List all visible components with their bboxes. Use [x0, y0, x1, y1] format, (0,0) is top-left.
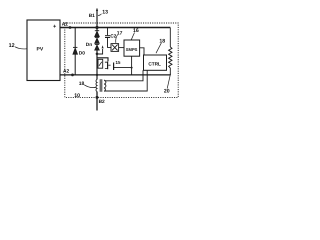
svg-text:A2: A2 [63, 68, 69, 74]
leader 18 [156, 43, 161, 53]
wire lower bus [60, 74, 171, 76]
node A2 dot [71, 74, 74, 77]
CTRL box 18 [144, 55, 167, 70]
transformer core [100, 79, 102, 92]
node bus-transformer dot [96, 74, 98, 76]
PV panel box 12 [27, 20, 60, 81]
leader 14 [84, 85, 96, 88]
arrowhead up [102, 45, 104, 48]
svg-text:10: 10 [74, 93, 80, 99]
wire B2 line [96, 92, 98, 111]
capacitor C2 [105, 28, 111, 48]
svg-text:17: 17 [117, 31, 123, 37]
diode D0 [73, 47, 77, 54]
leader 20 [167, 74, 170, 89]
svg-text:CTRL: CTRL [148, 61, 161, 66]
wire B1 output line 13 [96, 9, 98, 31]
transformer secondary coil [104, 80, 106, 91]
svg-text:18: 18 [79, 81, 85, 87]
wire D0 branch [74, 28, 76, 75]
svg-text:B2: B2 [99, 99, 105, 105]
switch 15 mark inside [99, 62, 102, 66]
svg-text:C2: C2 [110, 34, 116, 39]
leader 13 [98, 14, 102, 16]
node B2 dot [96, 96, 99, 99]
svg-text:13: 13 [102, 9, 108, 15]
svg-text:A1: A1 [62, 21, 68, 27]
svg-text:20: 20 [164, 89, 170, 95]
resistor 20 [169, 28, 172, 75]
svg-text:SMPS: SMPS [126, 47, 138, 52]
wire SMPS to CTRL [140, 48, 144, 55]
arrowhead B1 [96, 8, 98, 11]
svg-text:15: 15 [116, 60, 121, 65]
node bus junction dot [95, 26, 98, 29]
transistor mid stub [108, 64, 110, 66]
wire upper bus [60, 27, 170, 29]
wire secondary tap b [105, 70, 148, 91]
diode Dn chain [95, 31, 99, 50]
node Dn junction dot [96, 53, 99, 56]
node A1 dot [69, 26, 72, 29]
node switch output junction [131, 67, 133, 69]
transformer 14 primary coil [96, 80, 97, 92]
svg-text:18: 18 [159, 39, 165, 45]
svg-text:12: 12 [9, 43, 15, 49]
leader 17 [116, 35, 118, 43]
wire secondary tap a [105, 70, 144, 81]
switch 15 driver box [98, 59, 103, 68]
dashed enclosure 10 [65, 23, 178, 97]
wire Dn to node [96, 50, 98, 79]
leader 16 [131, 33, 134, 40]
svg-text:B1: B1 [89, 13, 95, 19]
wire to switch 15 [97, 58, 108, 62]
svg-text:Dn: Dn [86, 42, 92, 48]
wire Dn node stub with up arrow [97, 49, 103, 54]
SMPS box 16 [124, 40, 140, 56]
wire X box to SMPS [119, 47, 124, 49]
wire SMPS ground [131, 56, 133, 75]
transistor bars [107, 62, 109, 70]
wire switch output [114, 67, 132, 69]
switch box 17 (X box) [111, 44, 119, 52]
leader 12 [15, 47, 27, 49]
svg-text:D0: D0 [79, 50, 85, 56]
svg-text:PV: PV [37, 47, 44, 53]
